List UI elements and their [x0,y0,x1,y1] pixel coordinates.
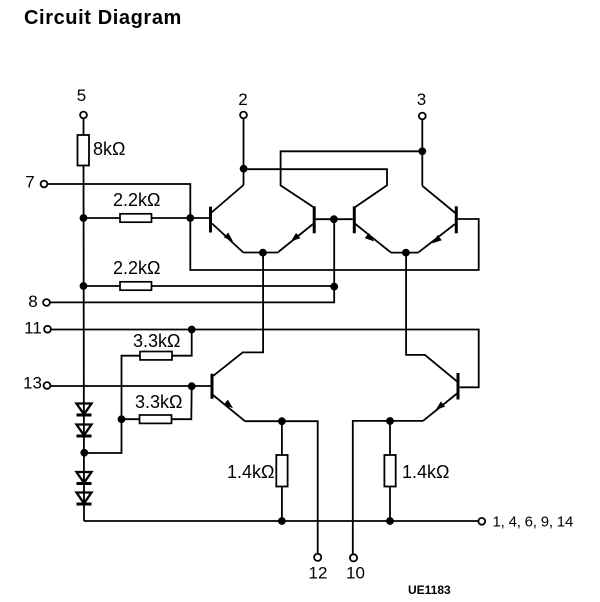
svg-text:1, 4, 6, 9, 14: 1, 4, 6, 9, 14 [493,514,574,531]
pin 12 terminal [314,554,321,561]
wire right pair emitter rail [391,252,418,254]
resistor R6 1.4k body [276,455,287,487]
transistor Q5 base bar [211,374,214,399]
node R5 diode leg [118,415,126,423]
arrow Q4 emitter [432,235,442,243]
wire R7 bottom lead [389,487,391,522]
wire Q6 emitter rail to pin10 [353,421,423,554]
node R6 rail [278,517,286,525]
node R7 top [386,417,394,425]
wire D4 to bottom rail [84,520,478,522]
wire R5 right to pin13 node [172,386,192,419]
transistor Q3 collector to pin2 [244,169,387,207]
wire left rail vertical [83,166,86,522]
pin 10 terminal [350,554,357,561]
svg-text:2.2kΩ: 2.2kΩ [113,190,160,210]
node rail-R2 [80,214,88,222]
svg-text:3.3kΩ: 3.3kΩ [135,392,182,412]
node pin11 R4 [188,326,196,334]
resistor R2 2.2k body [120,214,152,222]
pin 3 terminal [419,113,426,120]
node R3 base junction [330,283,338,291]
node pin7 leg junction [186,214,194,222]
transistor Q1 base bar [209,207,212,233]
resistor R5 3.3k body [140,415,172,423]
transistor Q3 base bar [353,206,356,233]
node pin13 R5 [188,382,196,390]
wire R6 top lead [281,421,283,455]
svg-text:11: 11 [24,319,42,338]
wire left emitters down to Q5 collector [213,253,263,376]
svg-text:2.2kΩ: 2.2kΩ [113,258,160,278]
wire R4 right to pin11 node [172,330,192,356]
transistor Q1 emitter [212,224,243,253]
transistor Q1 collector [212,185,244,213]
transistor Q4 emitter [418,224,455,253]
wire rail to R3 [84,285,121,287]
transistor Q2 base bar [313,206,316,233]
transistor Q2 emitter [278,224,313,252]
node pin2 junction [240,165,248,173]
arrow Q5 emitter [224,400,234,409]
svg-text:5: 5 [77,86,86,105]
transistor Q6 base bar [457,373,460,400]
arrow Q1 emitter [224,233,233,242]
svg-text:1.4kΩ: 1.4kΩ [402,462,449,482]
wire R2 to Q1 base [152,217,210,219]
wire Q5 emitter rail to pin12 [245,421,318,554]
common terminal 1,4,6,9,14 [478,518,485,525]
transistor Q3 emitter [355,224,391,253]
wire pin2 lead [243,119,245,185]
arrow Q2 emitter [291,233,301,242]
wire right emitters down to Q6 collector [406,253,457,382]
wire pin13 to Q5 base [51,385,211,387]
diode D3 [77,472,92,484]
resistor R4 3.3k body [140,352,172,360]
pin 7 terminal [41,181,48,188]
transistor Q5 emitter [213,395,245,421]
wire R3 to base node [152,285,335,287]
diode D4 [77,493,92,505]
pin 11 terminal [44,326,51,333]
node left emitters [259,249,267,257]
svg-text:3.3kΩ: 3.3kΩ [133,331,180,351]
svg-text:12: 12 [309,564,328,583]
transistor Q4 collector to pin3 node [422,186,455,213]
pin 5 terminal [80,112,87,119]
node R6 top [278,417,286,425]
arrow Q6 emitter [436,401,446,410]
svg-text:8kΩ: 8kΩ [93,139,125,159]
node R7 rail [386,517,394,525]
svg-text:10: 10 [346,564,365,583]
wire pin8 to base node [50,287,334,303]
wire left pair emitter rail [243,252,278,254]
transistor Q6 emitter [423,394,457,421]
transistor Q2 collector to pin3 [281,151,423,207]
svg-text:13: 13 [23,374,42,393]
svg-text:1.4kΩ: 1.4kΩ [227,462,274,482]
wire R4 left leg [84,356,140,453]
node rail-R3 [80,282,88,290]
svg-text:8: 8 [28,292,37,311]
svg-text:7: 7 [25,173,34,192]
node Q2-Q3 base [330,215,338,223]
svg-text:UE1183: UE1183 [408,583,451,597]
wire rail to R2 [84,217,121,219]
svg-text:2: 2 [238,90,247,109]
pin 8 terminal [43,299,50,306]
node diode tap [80,449,88,457]
resistor R3 2.2k body [120,282,152,290]
pin 13 terminal [44,382,51,389]
diode D2 [77,425,92,437]
transistor Q4 base bar [455,206,458,233]
wire pin3 lead [421,120,423,186]
diode D1 [77,404,92,416]
pin 2 terminal [240,112,247,119]
svg-text:Circuit Diagram: Circuit Diagram [24,7,182,29]
node pin3 junction [418,147,426,155]
wire Q2-Q3 base link [316,218,353,220]
wire base node down [333,219,335,286]
wire pin11 long [51,330,479,388]
wire R6 bottom lead [281,487,283,522]
wire R7 top lead [389,421,391,455]
wire pin5 to R1 [83,119,85,135]
node right emitters [402,249,410,257]
resistor R1 8k body [78,135,90,166]
wire pin7 horizontal [48,184,479,270]
resistor R7 1.4k body [384,455,395,487]
wire R5 left to diode tap [122,418,140,420]
arrow Q3 emitter [365,233,375,242]
svg-text:3: 3 [417,90,426,109]
